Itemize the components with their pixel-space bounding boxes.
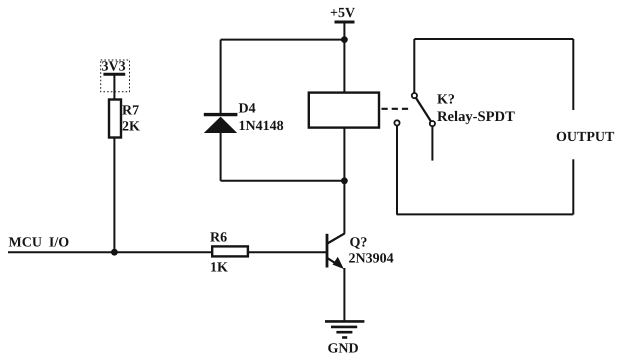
wire output loop top [414,38,573,40]
wire R7 to MCU node [113,138,115,253]
svg-text:D4: D4 [239,102,256,117]
svg-text:1N4148: 1N4148 [239,119,284,134]
wire bottom horizontal (diode to collector node) [221,180,345,182]
svg-text:R7: R7 [122,104,139,119]
wire +5V stub [343,22,345,40]
svg-text:OUTPUT: OUTPUT [556,130,615,145]
svg-text:Q?: Q? [350,236,368,251]
power 3V3 bar [103,73,125,76]
wire 3V3 stub [113,74,115,99]
ground bar 4 [342,336,347,339]
ground bar 3 [336,331,352,334]
wire from blade-end terminal (open) [431,127,433,161]
switch common terminal [412,93,417,98]
svg-text:MCU I/O: MCU I/O [9,236,70,251]
svg-text:Relay-SPDT: Relay-SPDT [437,109,515,125]
transistor Q1 emitter arrow [333,257,344,269]
wire output loop bottom [397,213,574,215]
wire switch common from top [413,39,415,93]
junction at +5V node [341,36,348,43]
wire R6 to base [248,251,327,253]
svg-text:R6: R6 [210,231,227,246]
wire output terminal down [396,126,398,215]
svg-text:2K: 2K [122,120,140,135]
power +5V bar [335,21,355,24]
wire diode anode vertical [220,133,222,181]
svg-text:1K: 1K [210,261,228,276]
svg-text:GND: GND [328,342,359,357]
transistor Q1 base bar [326,234,329,268]
diode D4 cathode bar [204,113,238,116]
wire emitter to ground [343,268,345,321]
wire output loop right upper [572,39,574,110]
ground bar 2 [331,326,357,329]
switch blade [416,98,431,122]
power 3V3 dotted box [101,60,130,92]
svg-text:+5V: +5V [330,6,355,21]
transistor Q1 emitter diagonal [327,258,341,267]
wire MCU input [8,251,212,253]
diode D4 triangle [204,117,237,133]
wire relay coil to collector [343,128,345,234]
wire output loop right lower [572,159,574,214]
dashed link coil to switch [382,108,413,110]
junction at collector node [341,177,348,184]
switch throw terminal (blade end) [430,121,435,126]
resistor R6 body [212,246,248,256]
svg-text:2N3904: 2N3904 [349,252,394,267]
transistor Q1 collector diagonal [327,233,345,244]
resistor R7 body [109,100,121,138]
wire diode cathode vertical [220,40,222,114]
relay coil K? body [309,93,379,128]
svg-text:3V3: 3V3 [102,60,126,75]
ground bar 1 [325,320,364,323]
wire +5V node to relay coil [343,40,345,93]
switch output terminal [394,120,399,125]
svg-text:K?: K? [437,93,455,108]
wire top horizontal (diode to +5V node) [221,39,345,41]
junction at MCU node [111,249,118,256]
